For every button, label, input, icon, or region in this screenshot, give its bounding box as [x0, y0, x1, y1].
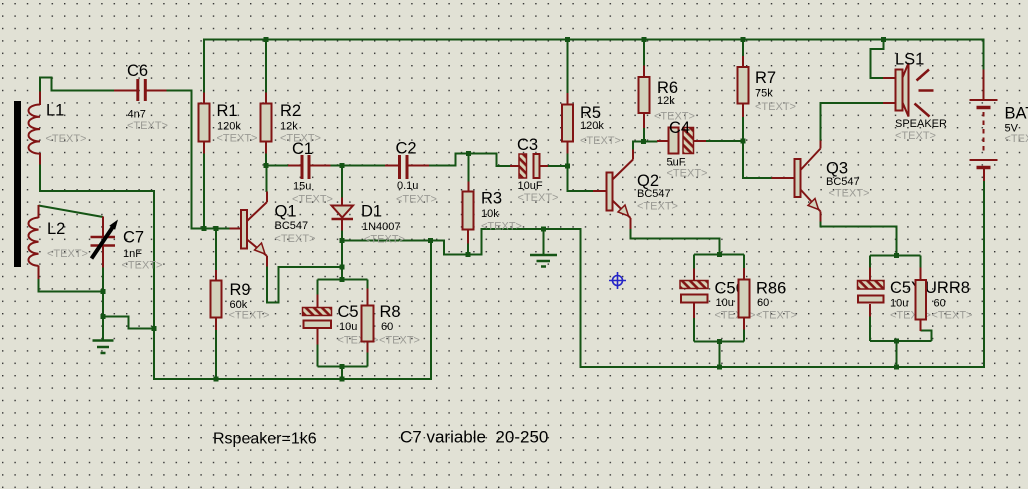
wire R3 bottom [467, 243, 469, 255]
wire output pair bottom rail [870, 341, 932, 367]
pin R5 bottom [567, 141, 569, 154]
svg-text:60: 60 [757, 297, 769, 309]
junction L2 / C7 [101, 289, 106, 294]
pin D1 anode [341, 198, 343, 207]
wire mid ground rail to battery minus [342, 181, 984, 368]
junction R9 / bottom rail [214, 377, 219, 382]
wire ground tap stub [543, 229, 545, 255]
svg-text:<TEXT>: <TEXT> [829, 188, 870, 200]
wire output cap bottom lead [869, 316, 871, 341]
svg-text:C6: C6 [127, 62, 148, 80]
wire R86 top lead [743, 255, 745, 269]
junction pair1 / bottom rail [340, 377, 345, 382]
wire R2 to top rail [265, 40, 267, 94]
svg-text:C2: C2 [396, 140, 417, 158]
wire C5 R8 bottom rail [318, 367, 368, 380]
svg-text:<TEXT>: <TEXT> [47, 248, 88, 260]
svg-text:15u: 15u [293, 181, 311, 193]
wire R5 to top rail [567, 40, 569, 94]
wire RR8 top lead [920, 256, 922, 269]
svg-text:BC547: BC547 [826, 176, 860, 188]
variable capacitor C7 [91, 220, 163, 272]
pin Q1 base [230, 228, 242, 230]
svg-text:<TEXT>: <TEXT> [895, 130, 936, 142]
junction C7 ground node [101, 314, 106, 319]
svg-text:C7: C7 [123, 229, 144, 247]
diode D1 [332, 203, 405, 246]
wire R6 bottom [643, 128, 645, 142]
pin C7 top [102, 217, 104, 238]
svg-text:0.1u: 0.1u [397, 180, 418, 192]
pin D1 cathode [341, 218, 343, 231]
svg-text:<TEXT>: <TEXT> [379, 335, 420, 347]
pin R3 top [468, 182, 470, 192]
pin C56 bottom [693, 303, 695, 319]
resistor R8 [362, 306, 374, 342]
pin R2 bottom [265, 142, 267, 154]
wire Q1 collector to node A [266, 166, 268, 193]
pin R86 top [743, 268, 745, 280]
wire C56 R86 top rail [694, 254, 744, 256]
junction top rail / R5 [565, 37, 570, 42]
junction D1 / pair drop [340, 238, 345, 243]
label C56 [715, 280, 756, 322]
wire node B drop to pair [341, 241, 343, 280]
pin L2 top [38, 205, 40, 218]
resistor R5 [562, 104, 621, 147]
capacitor C5Y (polarized) [858, 281, 885, 303]
pin L1 top [39, 92, 41, 106]
pin C56 top [693, 269, 695, 281]
wire speaker LS1 to top rail [871, 40, 884, 79]
svg-text:<TEXT>: <TEXT> [127, 120, 168, 132]
svg-text:BC547: BC547 [637, 188, 671, 200]
wire C3 to Q2 base [548, 166, 594, 191]
junction R5 / C3 [565, 164, 570, 169]
transistor Q3 [795, 159, 870, 210]
junction top rail / R7 [741, 37, 746, 42]
label C5Y [890, 279, 931, 322]
svg-text:<TEXT>: <TEXT> [229, 310, 270, 322]
svg-text:R8: R8 [380, 303, 401, 321]
svg-text:60: 60 [934, 298, 946, 310]
capacitor C4 (polarized) [667, 119, 708, 180]
svg-text:<TEXT>: <TEXT> [122, 260, 163, 272]
pin Q2 emitter [613, 201, 631, 230]
pin R5 top [567, 93, 569, 105]
wire C2 to C3 with R3 tap [429, 154, 511, 167]
svg-text:<TEXT>: <TEXT> [481, 221, 522, 233]
svg-text:60: 60 [381, 321, 393, 333]
pin R1 bottom [203, 142, 205, 154]
capacitor C56 (polarized) [680, 281, 708, 303]
svg-text:10u: 10u [890, 298, 908, 310]
wire R3 top tap [468, 154, 470, 183]
battery BA [970, 100, 1028, 168]
resistor R2 [261, 102, 321, 145]
wire R5 bottom [567, 153, 569, 166]
wire L1 bottom and bottom rail [40, 164, 431, 379]
junction pair2 bottom [717, 339, 722, 344]
ground (L2/C7) [93, 341, 114, 354]
svg-text:<TEXT>: <TEXT> [756, 310, 797, 322]
wire R1 bottom to base node [203, 153, 205, 229]
wire top power rail [204, 40, 984, 93]
transistor Q2 [607, 172, 678, 216]
svg-text:<TEXT>: <TEXT> [580, 135, 621, 147]
pin RR8 top [920, 268, 922, 281]
wire base node to R9 [215, 229, 217, 271]
pin R8 top [367, 289, 369, 306]
pin R7 top [742, 56, 744, 67]
junction base node / R1 [202, 226, 207, 231]
svg-text:R9: R9 [230, 281, 251, 299]
label URR8 [925, 279, 972, 322]
wire D1 cathode to ground rail [341, 230, 343, 241]
wire Q3 emitter to output pair [821, 221, 897, 256]
junction node A [264, 163, 269, 168]
pin C5 bottom [317, 328, 319, 345]
wire R8 top lead [367, 280, 369, 290]
pin R9 top [215, 270, 217, 281]
junction pair1 top [340, 277, 345, 282]
wire C7 bottom to ground [102, 267, 104, 341]
svg-text:<TEXT>: <TEXT> [637, 201, 678, 213]
junction top rail / R2 [264, 37, 269, 42]
capacitor C2 [396, 140, 437, 206]
wire C4 to R7 node [706, 140, 744, 142]
wire Q3 collector to speaker [821, 103, 884, 141]
svg-text:<TEXT>: <TEXT> [518, 192, 559, 204]
pin C2 left [385, 165, 398, 167]
pin R1 top [203, 93, 205, 104]
wire C1 to C2 [330, 165, 386, 167]
wire C5 bottom lead [317, 344, 319, 367]
svg-text:C4: C4 [669, 119, 690, 137]
origin marker [609, 272, 626, 289]
wire C6 to Q1 base node [166, 91, 230, 229]
svg-text:C1: C1 [292, 140, 313, 158]
label C5 [338, 303, 379, 347]
pin C2 right [409, 165, 430, 167]
wire R7 to top rail [742, 40, 744, 57]
svg-text:<TEXT>: <TEXT> [292, 194, 333, 206]
junction base node / R9 [214, 226, 219, 231]
svg-text:C7 variable 20-250: C7 variable 20-250 [400, 428, 548, 447]
svg-text:10uF: 10uF [518, 180, 543, 192]
capacitor C1 [292, 140, 333, 206]
svg-text:Rspeaker=1k6: Rspeaker=1k6 [213, 431, 317, 448]
pin LS1 bottom [883, 102, 896, 104]
ground (signal, mid) [530, 255, 557, 267]
resistor RR8 [916, 280, 927, 320]
wire C56 R86 bottom rail [694, 342, 744, 368]
pin battery minus [983, 168, 985, 181]
transformer core [14, 101, 21, 267]
svg-text:Q3: Q3 [826, 160, 848, 178]
capacitor C3 (polarized) [517, 136, 558, 204]
junction ground tap [541, 227, 546, 232]
pin R6 bottom [643, 113, 645, 128]
svg-text:<TEXT>: <TEXT> [932, 310, 973, 322]
pin C1 left [288, 165, 301, 167]
svg-text:C5: C5 [338, 303, 359, 321]
pin battery plus [983, 70, 985, 100]
svg-text:LS1: LS1 [895, 51, 924, 69]
svg-text:12k: 12k [280, 121, 298, 133]
label R86 [756, 280, 797, 322]
pin Q3 emitter [801, 190, 821, 222]
svg-text:L1: L1 [46, 102, 64, 120]
junction node B [340, 163, 345, 168]
pin C6 right [147, 90, 167, 92]
svg-text:<TEXT>: <TEXT> [755, 101, 796, 113]
junction R3 bottom [466, 252, 471, 257]
svg-text:R2: R2 [280, 102, 301, 120]
svg-text:12k: 12k [657, 95, 675, 107]
resistor R9 [211, 281, 270, 322]
svg-text:R3: R3 [481, 190, 502, 208]
capacitor C5 (polarized) [303, 308, 332, 329]
pin output cap top [869, 268, 871, 281]
junction pair1 bottom [340, 364, 345, 369]
annotation C7 variable [400, 428, 548, 447]
pin C6 left [114, 90, 137, 92]
pin C7 bottom [102, 245, 104, 268]
svg-text:75k: 75k [755, 88, 773, 100]
pin output cap bottom [869, 304, 871, 317]
svg-text:L2: L2 [47, 220, 65, 238]
wire R9 to bottom rail [215, 330, 217, 380]
wire C5 top lead [317, 280, 319, 296]
svg-text:R7: R7 [755, 69, 776, 87]
svg-text:R1: R1 [217, 102, 238, 120]
junction R6 / Q2 collector [641, 139, 646, 144]
wire node A to C1 [266, 165, 289, 167]
pin R8 bottom [367, 342, 369, 353]
wire R7 bottom to Q3 base [743, 117, 772, 179]
pin C4 left [657, 140, 669, 142]
junction pair2 top [717, 252, 722, 257]
svg-text:C3: C3 [517, 136, 538, 154]
wire C5 R8 top rail [318, 279, 368, 281]
svg-text:10u: 10u [339, 321, 357, 333]
svg-text:URR8: URR8 [925, 279, 970, 297]
resistor R6 [639, 77, 695, 123]
junction pair3 / lower rail [894, 365, 899, 370]
inductor L2 [28, 218, 87, 266]
svg-text:<TEXT>: <TEXT> [1005, 133, 1028, 145]
pin L2 bottom [38, 266, 40, 280]
svg-text:BC547: BC547 [275, 220, 309, 232]
pin R3 bottom [467, 230, 469, 244]
resistor R3 [463, 190, 522, 233]
wire node B to D1 [341, 166, 343, 199]
wire output pair top rail [870, 255, 921, 257]
pin Q1 collector [247, 192, 267, 222]
wire L1 top to C6 [40, 78, 115, 93]
wire R8 bottom lead [367, 352, 369, 367]
annotation Rspeaker [213, 431, 317, 448]
wire C56 top lead [693, 255, 695, 270]
junction ground branch [152, 326, 157, 331]
pin L1 bottom [39, 153, 41, 165]
svg-text:<TEXT>: <TEXT> [364, 234, 405, 246]
resistor R86 [739, 280, 750, 318]
pin Q2 base [593, 190, 607, 192]
transistor Q1 [241, 203, 315, 255]
pin Q2 collector [613, 150, 634, 180]
pin C3 right [540, 165, 549, 167]
svg-text:Q1: Q1 [275, 203, 297, 221]
junction pair2 / lower rail [717, 365, 722, 370]
svg-text:10k: 10k [481, 208, 499, 220]
pin R2 top [265, 93, 267, 104]
junction top rail / R6 [642, 37, 647, 42]
wire Q1 emitter to C5 R8 pair [267, 266, 342, 303]
pin Q3 base [772, 177, 795, 179]
pin C3 left [510, 165, 519, 167]
capacitor C6 [127, 62, 168, 132]
label R8 [379, 303, 420, 347]
svg-text:R86: R86 [756, 280, 786, 298]
wire ground node to bottom rail [103, 317, 154, 329]
pin RR8 bottom [920, 320, 922, 332]
pin Q1 emitter [247, 240, 267, 267]
junction pair3 top [894, 253, 899, 258]
resistor R7 [738, 67, 796, 113]
pin LS1 top [883, 77, 896, 79]
junction pair3 bottom [894, 339, 899, 344]
svg-text:<TEXT>: <TEXT> [667, 168, 708, 180]
resistor R1 [199, 102, 258, 145]
svg-text:BAT: BAT [1005, 105, 1028, 123]
svg-text:120k: 120k [217, 121, 241, 133]
wire L2 bottom to ground node [39, 279, 104, 292]
svg-text:1N4007: 1N4007 [362, 221, 401, 233]
wire C56 bottom lead [693, 318, 695, 342]
junction top rail / LS1 [881, 37, 886, 42]
pin R86 bottom [743, 318, 745, 330]
pin R7 bottom [742, 104, 744, 118]
wire Q2 emitter to C56 R86 pair [631, 229, 720, 255]
speaker LS1 [895, 51, 947, 143]
svg-text:D1: D1 [361, 203, 382, 221]
svg-text:SPEAKER: SPEAKER [895, 118, 947, 130]
junction mid rail drop [428, 238, 433, 243]
svg-text:<TEXT>: <TEXT> [46, 133, 87, 145]
junction emitter / drop [340, 265, 345, 270]
wire R6 to top rail [643, 40, 645, 67]
svg-text:120k: 120k [580, 120, 604, 132]
junction R3 tap [466, 151, 471, 156]
junction R7 / C4 [741, 139, 746, 144]
wire R86 bottom lead [743, 329, 745, 342]
pin C1 right [311, 165, 331, 167]
inductor L1 [28, 102, 86, 154]
pin C4 right [694, 140, 707, 142]
svg-text:<TEXT>: <TEXT> [275, 233, 316, 245]
pin C5 top [317, 295, 319, 308]
svg-text:<TEXT>: <TEXT> [217, 133, 258, 145]
pin R6 top [643, 66, 645, 78]
svg-text:<TEXT>: <TEXT> [396, 194, 437, 206]
pin Q3 collector [801, 141, 821, 171]
pin R9 bottom [215, 318, 217, 331]
wire R2 bottom to node A [265, 153, 267, 166]
wire Q2 collector to C4 [633, 142, 658, 151]
wire output cap top lead [869, 256, 871, 269]
svg-text:10u: 10u [716, 297, 734, 309]
svg-text:4n7: 4n7 [128, 109, 146, 121]
wire L2 top to C7 (diagonal) [39, 206, 104, 218]
wire RR8 bottom jog [921, 331, 932, 342]
svg-text:1nF: 1nF [123, 248, 142, 260]
